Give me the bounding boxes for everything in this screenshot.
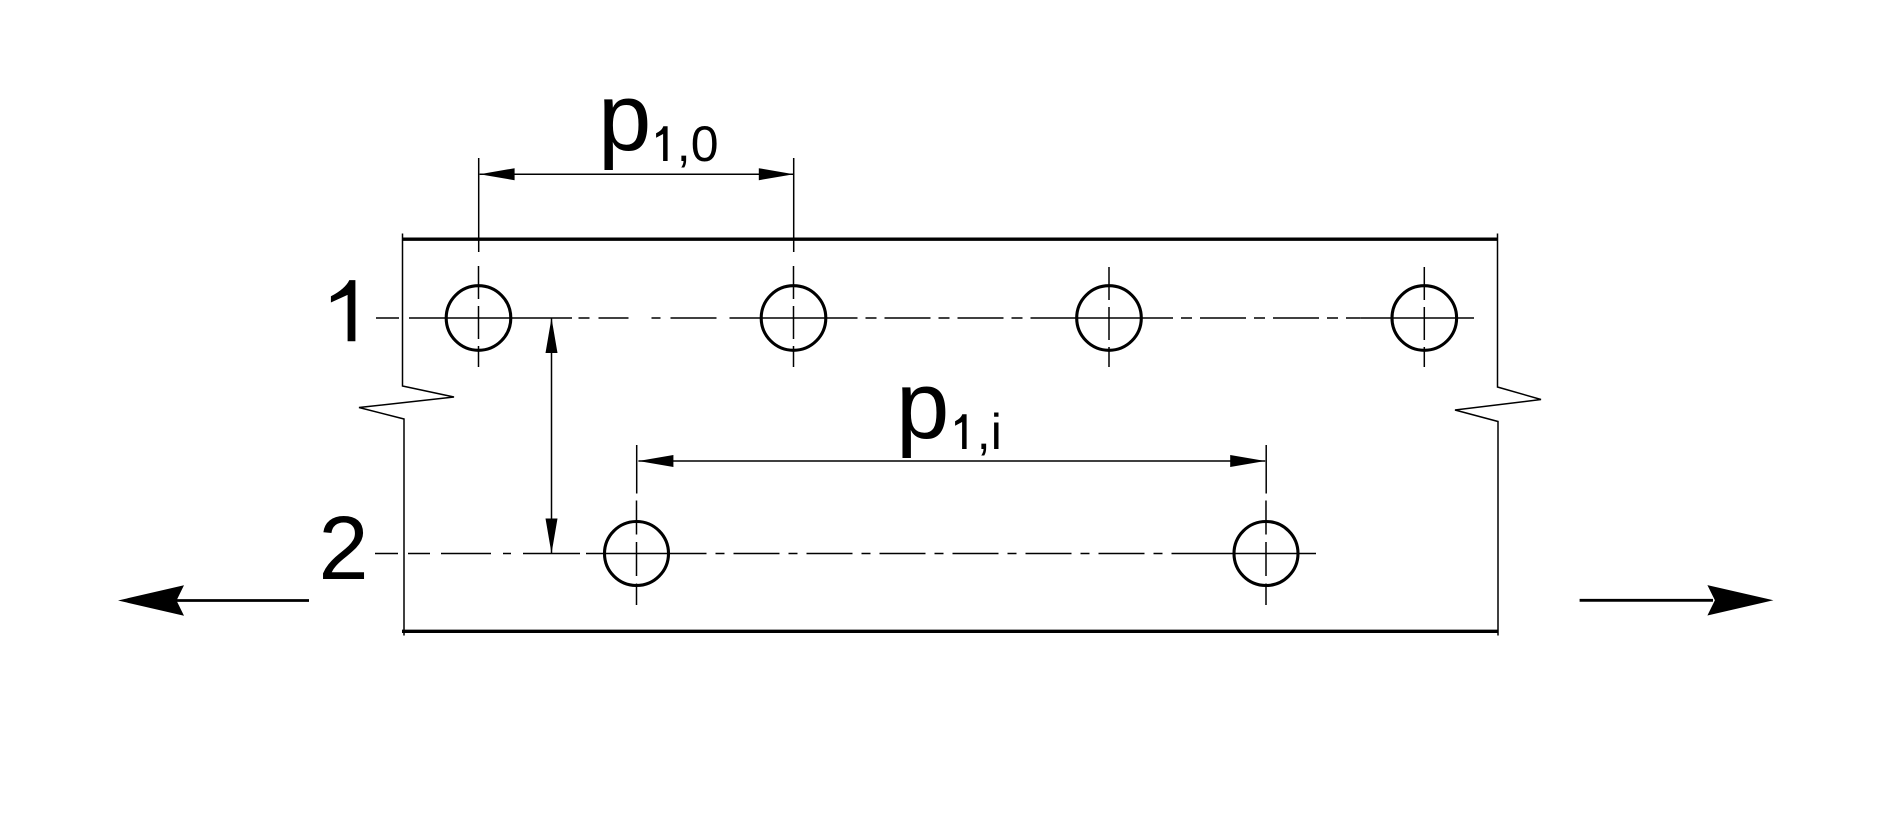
- hole H5 vertical center mark: [636, 501, 638, 606]
- hole H3 vertical center mark: [1108, 267, 1110, 367]
- dimension p1,0 left extension line: [478, 158, 480, 252]
- dimension p1,0 line: [480, 173, 794, 175]
- left load arrow head: [118, 585, 184, 615]
- svg-text:,0: ,0: [677, 116, 719, 172]
- svg-text:p: p: [598, 64, 651, 171]
- right load arrow shaft: [1580, 599, 1713, 602]
- dimension p1,0 left arrowhead: [480, 168, 515, 180]
- svg-text:p: p: [896, 352, 949, 459]
- dimension p1,i right extension line: [1265, 445, 1267, 494]
- plate top edge: [402, 238, 1498, 241]
- hole H6 row2: [1234, 522, 1298, 586]
- hole H4 vertical center mark: [1423, 267, 1425, 367]
- hole H2 vertical center mark: [793, 266, 795, 367]
- dimension p1,i left extension line: [636, 445, 638, 494]
- plate left edge with break symbol: [359, 234, 454, 636]
- svg-text:2: 2: [318, 499, 368, 599]
- vertical row-spacing dimension line: [551, 318, 553, 554]
- right load arrow head: [1707, 585, 1773, 615]
- vertical dimension bottom arrowhead: [546, 519, 558, 554]
- plate right edge with break symbol: [1455, 234, 1541, 636]
- dimension p1,i line: [638, 460, 1265, 462]
- left load arrow shaft: [176, 599, 309, 602]
- dimension p1,i right arrowhead: [1230, 455, 1265, 467]
- row 2 centerline: [375, 553, 1316, 555]
- hole H1 row1: [446, 286, 511, 351]
- hole H5 row2: [605, 522, 669, 586]
- row label 1: [331, 280, 356, 341]
- plate bottom edge: [402, 630, 1498, 633]
- hole H3 row1: [1077, 286, 1142, 351]
- dimension p1,0 right arrowhead: [759, 168, 794, 180]
- hole H2 row1: [761, 286, 826, 351]
- dimension p1,i left arrowhead: [638, 455, 673, 467]
- dimension p1,0 right extension line: [793, 158, 795, 252]
- row 1 centerline: [376, 317, 1474, 319]
- hole H4 row1: [1392, 286, 1457, 351]
- hole H6 vertical center mark: [1265, 501, 1267, 606]
- vertical dimension top arrowhead: [546, 318, 558, 353]
- hole H1 vertical center mark: [478, 266, 480, 367]
- svg-text:,i: ,i: [977, 404, 1002, 460]
